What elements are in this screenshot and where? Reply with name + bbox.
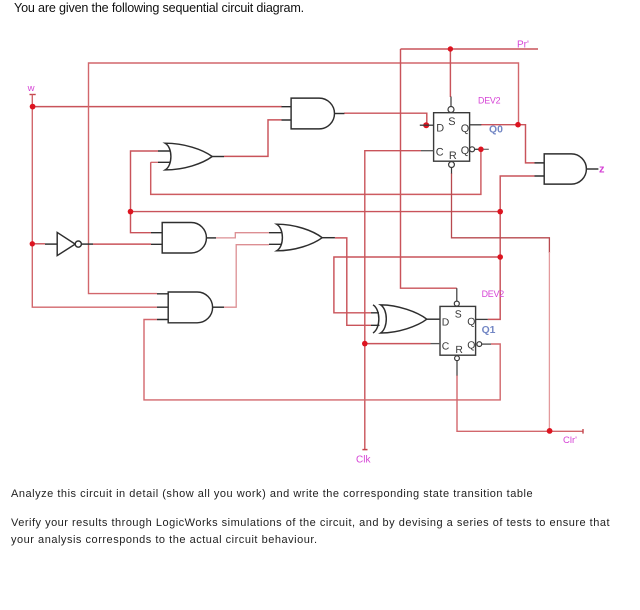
wire Pr' to FF2 S preset: [401, 49, 457, 288]
flip-flop U1 S bubble: [448, 107, 454, 113]
node W input port tick: [30, 94, 36, 96]
svg-text:w: w: [27, 83, 35, 94]
flip-flop U1 Q' stub: [475, 148, 479, 150]
wire OR1 input 2 stub lead: [151, 161, 158, 163]
svg-text:Q: Q: [461, 145, 469, 157]
wire Clk vertical rail with FF1 C branch: [365, 151, 421, 450]
AND gate A1 input stubs: [282, 107, 292, 120]
flip-flop U1 (DEV2) box: [434, 113, 470, 162]
inverter U3 triangle: [57, 232, 75, 255]
flip-flop U1 S preset stub: [450, 97, 452, 107]
svg-text:S: S: [455, 310, 462, 321]
wire OR1 output to AND1 input 2: [224, 120, 282, 156]
wire OR2 output to XOR input 2: [335, 238, 371, 325]
svg-text:S: S: [448, 116, 455, 128]
inverter U3 input stub: [45, 243, 57, 245]
flip-flop U1 R clear stub: [451, 162, 453, 174]
flip-flop U2 S preset stub: [456, 288, 458, 301]
junction dot at Clr' rail: [547, 428, 553, 434]
AND gate A3 output stub: [213, 306, 225, 308]
AND gate A2 body: [162, 223, 206, 254]
node Clr' port tick: [582, 429, 584, 434]
AND gate Z output stub: [586, 168, 598, 170]
OR gate O1 output stub: [212, 156, 224, 158]
XOR gate X1 body: [381, 305, 427, 333]
AND gate Z body: [544, 154, 586, 184]
wire OR1 input 1 drop: [131, 151, 159, 212]
inverter U3 bubble: [75, 241, 81, 247]
AND gate A1 body: [291, 98, 334, 129]
junction dot at OR1/AND2 branch: [128, 209, 134, 215]
wire Clk to FF2 C: [365, 343, 431, 345]
AND gate A3 body: [168, 292, 212, 323]
svg-text:D: D: [442, 317, 450, 328]
svg-text:Q: Q: [467, 340, 475, 351]
flip-flop U1 Q pin stub: [470, 124, 482, 126]
flip-flop U2 R clear stub: [456, 361, 458, 376]
flip-flop U1 C pin stub: [421, 150, 434, 152]
wire FF1 R to Clr' (upper bright part): [452, 173, 550, 253]
svg-text:Q: Q: [467, 317, 475, 328]
wire AND3 output to OR2 input 2: [224, 245, 269, 308]
wire Pr' to FF1 S preset: [449, 49, 451, 97]
flip-flop U2 Q' bubble: [477, 342, 482, 347]
flip-flop U2 C pin stub: [431, 343, 441, 345]
svg-text:Pr': Pr': [517, 40, 529, 51]
OR gate O2 input stubs: [269, 233, 285, 245]
svg-text:DEV2: DEV2: [482, 289, 505, 299]
AND gate A2 output stub: [206, 237, 216, 239]
junction dot at Pr'/FF1 S tap: [448, 46, 453, 51]
junction dot at FF1 D input: [423, 122, 429, 128]
svg-text:Q: Q: [461, 123, 469, 135]
flip-flop U2 (DEV2) box: [440, 306, 476, 355]
AND gate A3 input stubs: [157, 294, 168, 320]
wire Q0 top feedback loop to AND3 input 1: [89, 63, 519, 294]
wire Q0 to Z AND input 1: [481, 125, 535, 163]
junction dot at FF1 Q' output: [478, 147, 484, 153]
AND gate A2 input stubs: [151, 233, 162, 245]
flip-flop U1 Q' bubble: [470, 147, 475, 152]
flip-flop U1 D pin stub: [420, 124, 434, 126]
wire w to inverter input: [32, 243, 45, 245]
svg-text:R: R: [449, 150, 457, 162]
svg-text:Q0: Q0: [489, 124, 503, 135]
XOR gate X1 extra input arc: [373, 305, 379, 333]
wire drop to AND2 input 1: [131, 212, 152, 233]
XOR gate X1 input stubs: [371, 313, 380, 326]
wire Q1 to XOR input 1: [334, 257, 500, 313]
flip-flop U2 S bubble: [454, 301, 459, 306]
svg-text:Clk: Clk: [356, 454, 371, 465]
wire FF1 R to Clr' (lower light part): [548, 252, 550, 431]
wire AND1 output to FF1 D: [344, 113, 427, 124]
OR gate O2 output stub: [322, 237, 335, 239]
svg-text:C: C: [436, 147, 444, 159]
wire Pr' horizontal: [401, 48, 539, 50]
junction dot at w/inverter tap: [30, 241, 35, 246]
wire w vertical rail down to AND3 input 2: [32, 95, 157, 308]
wire inverter output to AND2 input 2: [93, 243, 151, 245]
svg-text:D: D: [436, 123, 444, 135]
wire Q1' feedback to AND3 input 3: [144, 320, 500, 400]
wire Q0' feedback to OR1 input 2: [151, 149, 481, 194]
OR gate O1 body: [165, 143, 212, 170]
svg-text:Q1: Q1: [482, 325, 496, 336]
svg-text:Clr': Clr': [563, 435, 577, 446]
junction dot at Q1/XOR tap: [497, 254, 503, 260]
wire w to AND1 input 1: [32, 106, 282, 108]
flip-flop U2 Q pin stub: [476, 318, 488, 320]
node Clk port tick: [362, 449, 367, 451]
flip-flop U1 Q' dead-end stub: [483, 148, 488, 150]
svg-text:R: R: [455, 345, 463, 356]
wire Q1 middle rail: [131, 211, 501, 213]
junction dot at Q1 rail upper tap: [497, 209, 503, 215]
junction dot at w/AND1 tap: [30, 104, 36, 110]
flip-flop U2 Q' stub: [482, 343, 491, 345]
OR gate O2 body: [277, 224, 323, 251]
flip-flop U1 R bubble: [449, 162, 455, 168]
junction dot at Clk/FF2 C tap: [362, 341, 368, 347]
wire Q1 vertical to Z AND input 2: [488, 176, 535, 319]
AND gate A1 output stub: [335, 113, 345, 115]
wire FF2 R down to Clr' rail: [457, 375, 583, 431]
OR gate O1 input stubs: [158, 151, 174, 162]
flip-flop U2 R bubble: [455, 356, 460, 361]
svg-text:z: z: [599, 163, 605, 175]
inverter U3 output stub: [81, 243, 93, 245]
junction dot at Q0 node: [515, 122, 521, 128]
wire AND2 output to OR2 input 1: [216, 233, 269, 238]
svg-text:DEV2: DEV2: [478, 95, 501, 105]
XOR gate X1 output stub to FF2 D: [427, 318, 440, 320]
AND gate Z output input stubs: [535, 163, 545, 176]
svg-text:C: C: [442, 342, 450, 353]
